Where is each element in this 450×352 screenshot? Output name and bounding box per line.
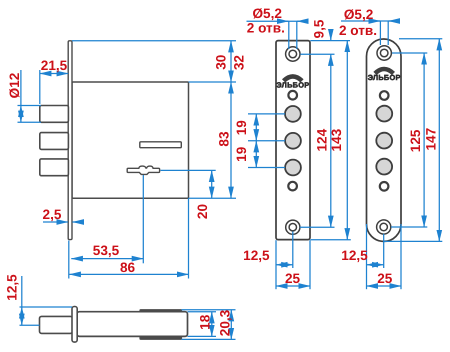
dim 12,5 plate1 line <box>276 264 293 266</box>
svg-text:12,5: 12,5 <box>341 248 368 263</box>
dia 5,2 arrow left plate2 <box>371 20 381 22</box>
dim 2,5 right arrow <box>72 221 83 223</box>
dim 147 line <box>438 39 440 242</box>
plate1 top hole center extension right <box>300 53 334 55</box>
svg-text:124: 124 <box>315 128 330 151</box>
dia 5,2 underline dimension line <box>247 20 307 22</box>
dia 5,2 leader right <box>296 21 298 49</box>
side view bolt <box>40 316 73 333</box>
plate2 top screw hole inner <box>380 49 388 57</box>
svg-text:143: 143 <box>329 128 344 151</box>
bolt hole 3 extension left <box>248 167 285 169</box>
dim 86 line <box>69 273 188 275</box>
side view faceplate flange <box>72 307 77 343</box>
dia 5,2 leader left plate2 <box>379 21 381 45</box>
svg-text:83: 83 <box>217 131 232 147</box>
bolt1 bottom extension left <box>18 121 42 123</box>
svg-text:9,5: 9,5 <box>312 19 327 38</box>
svg-text:53,5: 53,5 <box>93 243 120 258</box>
plate2 bolt hole 3 <box>376 159 392 175</box>
plate2 bolt hole 1 <box>376 106 392 122</box>
plate1 top screw hole inner <box>289 50 297 58</box>
plate1 small hole lower <box>288 182 297 191</box>
RIGHT PLATE <box>367 39 402 241</box>
MIDDLE PLATE <box>276 41 310 240</box>
side view body <box>77 312 188 337</box>
MAIN FRONT VIEW (lock body) <box>40 41 189 240</box>
body top extension line <box>189 81 237 83</box>
plate2 top hole center extension right <box>392 52 427 54</box>
plate1 bolt hole 2 <box>285 133 301 149</box>
plate1 top screw hole outer <box>286 47 300 61</box>
svg-text:2 отв.: 2 отв. <box>339 23 377 38</box>
plate1 left edge extension down <box>275 240 277 289</box>
body top extension right <box>188 311 217 313</box>
bolt 3 <box>40 159 69 176</box>
plate2 right tangent extension down <box>400 224 402 289</box>
flange top extension left <box>20 306 73 308</box>
bolt 1 <box>40 106 69 123</box>
dim 20,3 line <box>230 310 232 340</box>
dim 20 line <box>211 170 213 198</box>
cover top extension right <box>182 309 236 311</box>
svg-text:12,5: 12,5 <box>5 274 20 301</box>
svg-text:18: 18 <box>198 314 213 330</box>
dim O12 vertical extension <box>20 70 22 106</box>
bolt hole 2 extension left <box>248 140 285 142</box>
strip top extension line <box>72 40 236 42</box>
plate2 top extension right <box>399 38 442 40</box>
bolt top-left extension up <box>39 70 41 104</box>
strike plate 2 outline (stadium) <box>367 39 402 241</box>
dim 143 line <box>346 41 348 240</box>
dim 25 plate1 line <box>276 285 310 287</box>
body bottom extension right <box>188 335 217 337</box>
plate1 right edge extension down <box>309 240 311 289</box>
bolt1 top extension left <box>18 105 42 107</box>
dim 53,5 line <box>71 258 143 260</box>
SIDE VIEW BOTTOM <box>40 307 188 343</box>
svg-text:86: 86 <box>120 260 136 275</box>
svg-text:2 отв.: 2 отв. <box>247 20 285 35</box>
bolt center extension left <box>20 324 40 326</box>
svg-text:125: 125 <box>408 129 423 152</box>
dia 5,2 arrow left <box>279 20 289 22</box>
plate1 top extension right <box>310 40 350 42</box>
body right extension down <box>188 198 190 278</box>
strike plate 1 outline <box>276 41 310 240</box>
dia 5,2 leader right plate2 <box>387 21 389 45</box>
dia 5,2 leader left <box>288 21 290 49</box>
dim 18 line <box>211 312 213 337</box>
svg-text:20,3: 20,3 <box>218 309 233 336</box>
cover bottom extension right <box>182 338 236 340</box>
plate2 small hole lower <box>380 182 389 191</box>
plate2 bottom hole center extension down <box>383 234 385 268</box>
plate1 logo arc <box>284 76 302 81</box>
dim 30/32 line <box>230 41 232 82</box>
keyhole center extension down <box>142 175 144 263</box>
dim 2,5 left arrow <box>43 221 68 223</box>
dim 19 upper line <box>255 114 257 141</box>
plate1 bottom extension right <box>310 239 351 241</box>
plate1 small hole upper <box>288 91 297 100</box>
DIMENSIONS RIGHT PLATE <box>341 21 442 289</box>
dim 19 lower line <box>255 141 257 168</box>
svg-text:20: 20 <box>195 204 210 219</box>
plate2 bottom hole center extension right <box>391 226 427 228</box>
svg-text:ЭЛЬБОР: ЭЛЬБОР <box>276 80 309 89</box>
dim O12 line <box>20 106 22 123</box>
svg-text:19: 19 <box>234 146 249 162</box>
plate2 bottom screw hole inner <box>380 223 387 230</box>
svg-text:12,5: 12,5 <box>243 248 270 263</box>
dia 5,2 arrow right plate2 <box>389 20 398 22</box>
DIMENSIONS MIDDLE PLATE <box>247 21 351 289</box>
svg-text:19: 19 <box>234 120 249 136</box>
plate2 top screw hole outer <box>377 46 391 60</box>
dim 125 line <box>423 53 425 227</box>
svg-text:30: 30 <box>214 55 229 70</box>
svg-text:Ø12: Ø12 <box>7 72 22 98</box>
plate1 bottom screw hole outer <box>286 220 300 234</box>
dia 5,2 underline dimension line plate2 <box>341 20 398 22</box>
plate1 bottom hole center extension right <box>300 226 335 228</box>
svg-text:21,5: 21,5 <box>41 58 68 73</box>
keyhole extension line <box>161 169 216 171</box>
DIMENSIONS LEFT VIEW <box>18 41 237 279</box>
dim 83 line <box>230 82 232 198</box>
svg-text:Ø5,2: Ø5,2 <box>252 6 282 21</box>
plate1 bolt hole 3 <box>285 160 301 176</box>
svg-text:25: 25 <box>377 271 393 286</box>
dia 5,2 arrow right <box>297 20 306 22</box>
svg-text:32: 32 <box>231 55 246 71</box>
body bottom extension line <box>189 197 237 199</box>
plate2 logo arc <box>375 69 393 74</box>
plate2 left tangent extension down <box>366 224 368 289</box>
svg-text:25: 25 <box>285 271 301 286</box>
plate2 bottom screw hole outer <box>377 220 391 234</box>
svg-text:Ø5,2: Ø5,2 <box>344 7 374 22</box>
svg-text:2,5: 2,5 <box>43 207 62 222</box>
DIMENSIONS SIDE VIEW <box>20 276 236 339</box>
lock body <box>72 82 189 198</box>
bolt hole 1 extension left <box>248 113 285 115</box>
plate2 bolt hole 2 <box>376 133 392 149</box>
dim 12,5 side line <box>21 276 23 307</box>
dim 25 plate2 line <box>367 285 402 287</box>
faceplate strip (front view) <box>68 41 72 240</box>
follower slot <box>140 142 182 148</box>
dim 21,5 line <box>40 73 68 75</box>
dim 124 line <box>330 54 332 227</box>
plate2 small hole upper <box>380 91 389 100</box>
svg-text:ЭЛЬБОР: ЭЛЬБОР <box>368 73 401 82</box>
plate1 bolt hole 1 <box>285 106 301 122</box>
plate2 bottom extension right <box>384 240 443 242</box>
dim 9,5 upper segment <box>330 30 332 41</box>
strip bottom extension down <box>68 241 70 279</box>
dim 12,5 plate2 line <box>367 264 384 266</box>
key profile <box>127 166 159 174</box>
svg-text:147: 147 <box>424 128 439 151</box>
side view bottom cover plate <box>140 336 182 339</box>
side view top cover plate <box>140 310 182 312</box>
plate1 bottom screw hole inner <box>289 224 296 231</box>
plate1 bottom hole center extension down <box>292 232 294 269</box>
bolt 2 <box>40 133 69 150</box>
